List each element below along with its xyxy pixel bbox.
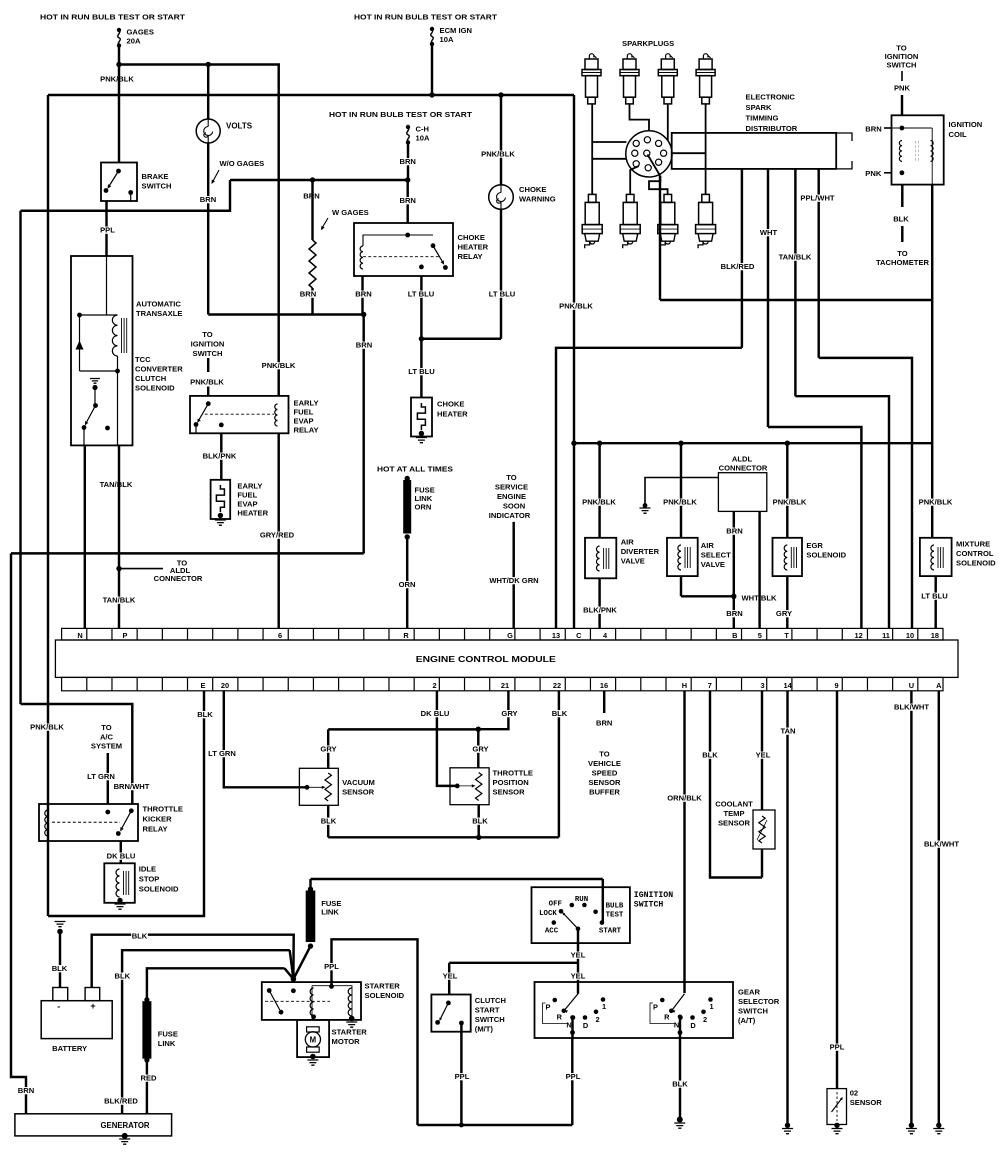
svg-text:2: 2 bbox=[433, 681, 437, 690]
svg-text:HEATER: HEATER bbox=[437, 410, 468, 419]
svg-text:10A: 10A bbox=[416, 134, 430, 143]
wire DK BLU from pin 2 bbox=[437, 691, 455, 786]
svg-text:BRN: BRN bbox=[399, 196, 415, 205]
svg-text:RUN: RUN bbox=[575, 896, 588, 904]
svg-text:RELAY: RELAY bbox=[143, 825, 168, 834]
wire fuse GAGES to bus bbox=[118, 46, 120, 65]
svg-text:PNK/BLK: PNK/BLK bbox=[919, 498, 953, 507]
svg-text:FUEL: FUEL bbox=[237, 491, 257, 500]
svg-text:W/O GAGES: W/O GAGES bbox=[220, 159, 265, 168]
node starter solenoid feed junction bbox=[291, 976, 297, 982]
svg-text:SOLENOID: SOLENOID bbox=[956, 559, 996, 568]
wire LT GRN from pin 20 bbox=[224, 691, 305, 788]
sensor THROTTLE POSITION SENSOR bbox=[450, 768, 489, 805]
svg-text:U: U bbox=[909, 681, 914, 690]
svg-text:2: 2 bbox=[703, 1015, 707, 1024]
svg-text:PPL: PPL bbox=[100, 226, 115, 235]
svg-text:BLK: BLK bbox=[52, 964, 68, 973]
solenoid AIR SELECT VALVE bbox=[680, 443, 682, 538]
svg-text:12: 12 bbox=[854, 631, 862, 640]
svg-text:BRAKE: BRAKE bbox=[142, 172, 169, 181]
wire YEL from pin 3 bbox=[761, 691, 763, 810]
svg-text:TO: TO bbox=[599, 750, 610, 759]
solenoid IDLE STOP SOLENOID bbox=[104, 863, 135, 903]
resistor W GAGES bbox=[303, 193, 320, 200]
wire BRN from relay bbox=[361, 276, 363, 315]
svg-text:1: 1 bbox=[709, 1002, 713, 1011]
wire PNK/BLK left rail x48 bbox=[47, 95, 49, 916]
sparkplug top 2 bbox=[620, 54, 639, 104]
svg-text:SWITCH: SWITCH bbox=[887, 61, 917, 70]
svg-text:BRN: BRN bbox=[300, 290, 316, 299]
svg-text:LT BLU: LT BLU bbox=[921, 592, 948, 601]
sparkplug top 3 bbox=[658, 54, 677, 104]
svg-text:BLK: BLK bbox=[197, 710, 213, 719]
sensor 02 SENSOR bbox=[827, 1089, 847, 1125]
fuse link RED generator bbox=[147, 968, 285, 998]
svg-text:SWITCH: SWITCH bbox=[475, 1015, 505, 1024]
sparkplug top 4 bbox=[696, 54, 715, 104]
wire BRN label generator bbox=[18, 1087, 35, 1094]
svg-text:GEAR: GEAR bbox=[738, 988, 760, 997]
wire BRN from ALDL to ECM pin B bbox=[733, 511, 735, 628]
distributor rotor wire to ignition coil bbox=[648, 155, 661, 176]
svg-text:MIXTURE: MIXTURE bbox=[956, 540, 990, 549]
sparkplug bottom 1 bbox=[582, 194, 602, 248]
svg-text:SOON: SOON bbox=[503, 502, 525, 511]
svg-text:N: N bbox=[77, 631, 82, 640]
wire LT GRN to throttle kicker relay bbox=[107, 753, 109, 804]
node junction BRN at y180 bbox=[405, 177, 410, 182]
wire BLK/RED from distributor bbox=[741, 169, 743, 348]
wire PPL starter solenoid loop bbox=[332, 939, 418, 1125]
svg-text:GENERATOR: GENERATOR bbox=[100, 1121, 149, 1130]
motor STARTER MOTOR bbox=[297, 1020, 329, 1057]
svg-text:P: P bbox=[546, 1003, 551, 1012]
svg-text:A: A bbox=[936, 681, 942, 690]
wire GRY net from pin 21 bbox=[478, 691, 508, 729]
svg-text:BULB: BULB bbox=[606, 903, 624, 911]
solenoid EGR SOLENOID bbox=[786, 443, 788, 538]
svg-text:TACHOMETER: TACHOMETER bbox=[876, 258, 930, 267]
svg-text:LINK: LINK bbox=[158, 1039, 176, 1048]
svg-text:BRN: BRN bbox=[18, 1086, 34, 1095]
wire bus y210 to left rail bbox=[21, 180, 231, 211]
wire LT BLU to ECM pin 18 bbox=[934, 576, 936, 628]
wire PNK/BLK bus y443 bbox=[574, 442, 932, 444]
distributor cap circle bbox=[626, 131, 672, 177]
wire main bus y95 bbox=[48, 94, 574, 96]
svg-text:PPL/WHT: PPL/WHT bbox=[800, 194, 835, 203]
fuse link (ignition feed) bbox=[311, 878, 603, 880]
svg-text:BLK: BLK bbox=[472, 817, 488, 826]
svg-text:WHT/DK GRN: WHT/DK GRN bbox=[489, 576, 538, 585]
wire BLK battery positive to starter bbox=[92, 935, 294, 988]
svg-text:HEATER: HEATER bbox=[237, 509, 268, 518]
generator GENERATOR bbox=[15, 1114, 172, 1136]
svg-text:N: N bbox=[674, 1020, 679, 1029]
wire drop to brake switch bbox=[118, 65, 120, 163]
relay CHOKE HEATER RELAY bbox=[354, 223, 453, 276]
svg-text:SWITCH: SWITCH bbox=[142, 182, 172, 191]
wire BLK from coil to tachometer bbox=[901, 185, 903, 207]
wire plug1 to distributor bbox=[591, 104, 593, 194]
svg-text:LT BLU: LT BLU bbox=[489, 290, 516, 299]
wire TAN from pin 14 to ground bbox=[786, 691, 788, 1124]
switch GEAR SELECTOR SWITCH (A/T) bbox=[535, 982, 734, 1038]
node junction LT BLU bbox=[419, 336, 424, 341]
sparkplug bottom 3 bbox=[658, 194, 678, 248]
svg-text:WHT: WHT bbox=[760, 228, 778, 237]
svg-text:SOLENOID: SOLENOID bbox=[139, 885, 179, 894]
solenoid STARTER SOLENOID bbox=[262, 982, 361, 1020]
svg-text:A/C: A/C bbox=[100, 732, 114, 741]
svg-text:HEATER: HEATER bbox=[458, 243, 489, 252]
svg-text:BLK: BLK bbox=[702, 751, 718, 760]
svg-text:RED: RED bbox=[140, 1074, 157, 1083]
svg-text:DIVERTER: DIVERTER bbox=[621, 547, 660, 556]
svg-text:AIR: AIR bbox=[621, 538, 635, 547]
svg-text:RELAY: RELAY bbox=[294, 426, 319, 435]
svg-text:SELECTOR: SELECTOR bbox=[738, 997, 780, 1006]
svg-text:14: 14 bbox=[783, 681, 792, 690]
wire PPL brake switch to transaxle bbox=[105, 201, 107, 256]
svg-text:SENSOR: SENSOR bbox=[588, 778, 621, 787]
svg-text:BLK: BLK bbox=[321, 817, 337, 826]
wire GRY to vacuum sensor bbox=[327, 729, 329, 768]
wire BRN to choke heater relay bbox=[406, 180, 408, 223]
svg-text:CLUTCH: CLUTCH bbox=[475, 996, 506, 1005]
wire plug2 bottom to distributor bbox=[630, 166, 639, 194]
svg-text:IGNITION: IGNITION bbox=[949, 120, 983, 129]
svg-text:HOT IN RUN BULB TEST OR START: HOT IN RUN BULB TEST OR START bbox=[329, 110, 472, 119]
svg-text:R: R bbox=[557, 1013, 563, 1022]
wire fuse link to starter solenoid junction bbox=[293, 946, 310, 979]
svg-text:GRY: GRY bbox=[776, 609, 792, 618]
wire ALDL ground bbox=[645, 478, 718, 505]
node junction EGR feed bbox=[785, 441, 790, 446]
wire TCC coil output down bbox=[117, 371, 119, 445]
wire WHT from distributor bbox=[767, 169, 769, 427]
svg-text:VALVE: VALVE bbox=[701, 560, 725, 569]
svg-text:22: 22 bbox=[553, 681, 561, 690]
wire PPL from clutch switch bbox=[460, 1023, 462, 1125]
svg-text:GRY: GRY bbox=[501, 709, 517, 718]
svg-text:TO: TO bbox=[506, 473, 517, 482]
svg-text:SPEED: SPEED bbox=[592, 769, 618, 778]
wire PPL from gear selector left bank bbox=[570, 1015, 575, 1020]
svg-text:TAN/BLK: TAN/BLK bbox=[779, 253, 812, 262]
svg-text:TO: TO bbox=[101, 723, 112, 732]
sparkplug bottom 2 bbox=[620, 194, 640, 248]
svg-text:C-H: C-H bbox=[416, 125, 430, 134]
solenoid MIXTURE CONTROL SOLENOID bbox=[918, 499, 953, 506]
svg-text:PNK/BLK: PNK/BLK bbox=[190, 378, 224, 387]
svg-text:SWITCH: SWITCH bbox=[193, 349, 223, 358]
svg-text:TIMMING: TIMMING bbox=[746, 114, 779, 123]
svg-text:D: D bbox=[583, 1021, 589, 1030]
svg-text:02: 02 bbox=[850, 1089, 858, 1098]
wire LT BLU from choke warning bbox=[500, 210, 502, 339]
distributor body bbox=[672, 133, 837, 169]
svg-text:R: R bbox=[403, 631, 409, 640]
svg-text:PNK: PNK bbox=[865, 169, 882, 178]
svg-text:DK BLU: DK BLU bbox=[107, 852, 136, 861]
svg-text:6: 6 bbox=[278, 631, 282, 640]
node junction x574 bbox=[571, 441, 576, 446]
node junction air select feed bbox=[678, 441, 683, 446]
svg-text:PNK/BLK: PNK/BLK bbox=[100, 75, 134, 84]
wire ALDL to ECM pin 5 bbox=[758, 511, 760, 628]
svg-text:LINK: LINK bbox=[321, 908, 339, 917]
svg-text:THROTTLE: THROTTLE bbox=[493, 769, 534, 778]
svg-text:IGNITION: IGNITION bbox=[191, 340, 225, 349]
svg-text:BRN: BRN bbox=[399, 157, 415, 166]
svg-text:CLUTCH: CLUTCH bbox=[135, 374, 166, 383]
svg-text:C: C bbox=[576, 631, 582, 640]
wire PNK/BLK main right rail bbox=[573, 95, 575, 628]
svg-text:BLK/PNK: BLK/PNK bbox=[203, 452, 237, 461]
module ENGINE CONTROL MODULE bbox=[55, 640, 958, 677]
svg-text:5: 5 bbox=[758, 631, 762, 640]
svg-text:LOCK: LOCK bbox=[539, 910, 557, 918]
svg-text:CONVERTER: CONVERTER bbox=[135, 365, 183, 374]
svg-text:BRN: BRN bbox=[355, 290, 371, 299]
svg-text:PNK/BLK: PNK/BLK bbox=[559, 302, 593, 311]
svg-text:ENGINE CONTROL MODULE: ENGINE CONTROL MODULE bbox=[416, 655, 556, 664]
wire BRN bus y553 bbox=[362, 551, 364, 554]
ignition coil U1 bbox=[892, 115, 944, 184]
svg-text:BLK: BLK bbox=[132, 932, 148, 941]
svg-text:BRN/WHT: BRN/WHT bbox=[114, 782, 150, 791]
wire plug3 bottom to distributor bbox=[649, 176, 668, 194]
svg-text:ACC: ACC bbox=[545, 928, 559, 936]
svg-text:10: 10 bbox=[906, 631, 914, 640]
wire BLK generator to starter bbox=[122, 950, 290, 1114]
svg-text:SENSOR: SENSOR bbox=[493, 788, 526, 797]
svg-text:EGR: EGR bbox=[806, 541, 823, 550]
svg-text:PNK/BLK: PNK/BLK bbox=[773, 498, 807, 507]
svg-text:COIL: COIL bbox=[949, 130, 968, 139]
svg-text:VOLTS: VOLTS bbox=[226, 122, 253, 131]
svg-text:TRANSAXLE: TRANSAXLE bbox=[136, 309, 182, 318]
wire PPL bottom run bbox=[418, 1124, 573, 1126]
svg-text:11: 11 bbox=[882, 631, 890, 640]
svg-text:VACUUM: VACUUM bbox=[342, 778, 375, 787]
svg-text:CONNECTOR: CONNECTOR bbox=[719, 464, 768, 473]
wire corner x279 top bbox=[277, 63, 279, 95]
svg-text:BLK/RED: BLK/RED bbox=[104, 1097, 138, 1106]
svg-text:COOLANT: COOLANT bbox=[715, 800, 753, 809]
svg-text:BRN: BRN bbox=[356, 341, 372, 350]
svg-text:YEL: YEL bbox=[571, 972, 586, 981]
svg-text:BLK: BLK bbox=[893, 215, 909, 224]
svg-text:BLK/WHT: BLK/WHT bbox=[894, 703, 929, 712]
svg-text:YEL: YEL bbox=[756, 751, 771, 760]
svg-text:BLK: BLK bbox=[552, 709, 568, 718]
svg-text:TAN: TAN bbox=[780, 727, 795, 736]
svg-text:+: + bbox=[90, 1001, 95, 1011]
wire plug4 vertical bbox=[705, 104, 707, 194]
switch CLUTCH START SWITCH (M/T) bbox=[431, 995, 470, 1032]
svg-text:G: G bbox=[507, 631, 513, 640]
svg-text:IGNITION: IGNITION bbox=[634, 891, 673, 900]
distributor to coil connector top bbox=[836, 133, 852, 141]
svg-text:RELAY: RELAY bbox=[458, 252, 483, 261]
svg-text:ORN: ORN bbox=[399, 580, 416, 589]
svg-text:SENSOR: SENSOR bbox=[342, 788, 375, 797]
svg-text:FUEL: FUEL bbox=[294, 408, 314, 417]
svg-text:HOT IN RUN BULB TEST OR START: HOT IN RUN BULB TEST OR START bbox=[354, 13, 497, 22]
svg-text:BRN: BRN bbox=[596, 719, 612, 728]
fuse GAGES 20A bbox=[117, 28, 121, 32]
svg-text:START: START bbox=[599, 928, 622, 936]
node junction air diverter feed bbox=[597, 441, 602, 446]
svg-text:ECM IGN: ECM IGN bbox=[440, 26, 473, 35]
svg-text:DISTRIBUTOR: DISTRIBUTOR bbox=[746, 124, 798, 133]
TCC converter clutch solenoid internals bbox=[106, 256, 108, 315]
svg-text:STARTER: STARTER bbox=[365, 982, 401, 991]
svg-text:PNK/BLK: PNK/BLK bbox=[262, 361, 296, 370]
svg-text:TO: TO bbox=[202, 330, 213, 339]
wire YEL into gear selector bbox=[577, 963, 579, 994]
svg-text:M: M bbox=[310, 1035, 317, 1044]
wire PPL from pin 9 bbox=[836, 691, 838, 1089]
wire distributor coil HT bus y300 bbox=[660, 299, 932, 301]
svg-text:YEL: YEL bbox=[443, 972, 458, 981]
svg-text:TCC: TCC bbox=[135, 355, 151, 364]
connector ECM top pin row bbox=[62, 628, 943, 640]
wire coil secondary down right rail bbox=[931, 185, 933, 538]
wire BLK to ECM pin 22 bbox=[558, 691, 560, 838]
wire TAN/BLK from distributor bbox=[794, 169, 796, 396]
svg-text:W GAGES: W GAGES bbox=[332, 208, 369, 217]
svg-text:CONNECTOR: CONNECTOR bbox=[154, 574, 203, 583]
svg-text:TAN/BLK: TAN/BLK bbox=[100, 480, 133, 489]
svg-text:STARTER: STARTER bbox=[332, 1028, 368, 1037]
relay THROTTLE KICKER RELAY bbox=[39, 804, 138, 841]
switch IGNITION SWITCH bbox=[602, 879, 604, 923]
svg-text:LT BLU: LT BLU bbox=[408, 367, 435, 376]
svg-text:2: 2 bbox=[595, 1015, 599, 1024]
svg-text:YEL: YEL bbox=[571, 951, 586, 960]
node junction PNK/BLK bus bbox=[116, 62, 121, 67]
svg-text:16: 16 bbox=[600, 681, 608, 690]
svg-text:CHOKE: CHOKE bbox=[519, 185, 546, 194]
svg-text:SYSTEM: SYSTEM bbox=[91, 742, 122, 751]
wire plug2 top to distributor bbox=[630, 104, 650, 131]
svg-text:VEHICLE: VEHICLE bbox=[588, 759, 621, 768]
wire BRN from pin 16 bbox=[603, 691, 605, 713]
svg-text:CONTROL: CONTROL bbox=[956, 549, 994, 558]
svg-text:D: D bbox=[690, 1021, 696, 1030]
connector ECM bottom pin row bbox=[62, 677, 943, 690]
wire PNK/BLK through EFE relay bbox=[277, 95, 279, 396]
wire ORN to ECM pin R bbox=[406, 537, 408, 629]
svg-text:21: 21 bbox=[501, 681, 509, 690]
wire label PNK/BLK bbox=[100, 76, 135, 83]
fuse C-H 10A bbox=[406, 125, 410, 129]
svg-text:AUTOMATIC: AUTOMATIC bbox=[136, 300, 181, 309]
svg-text:GRY/RED: GRY/RED bbox=[260, 531, 295, 540]
svg-text:B: B bbox=[732, 631, 737, 640]
svg-text:WARNING: WARNING bbox=[519, 195, 556, 204]
wire left rail x20 bbox=[19, 211, 21, 704]
svg-text:SELECT: SELECT bbox=[701, 551, 731, 560]
solenoid AIR DIVERTER VALVE bbox=[598, 443, 600, 538]
svg-text:EVAP: EVAP bbox=[237, 500, 257, 509]
svg-text:13: 13 bbox=[552, 631, 560, 640]
svg-text:HOT AT ALL TIMES: HOT AT ALL TIMES bbox=[377, 465, 453, 474]
svg-text:PNK/BLK: PNK/BLK bbox=[30, 723, 64, 732]
svg-text:(A/T): (A/T) bbox=[738, 1016, 756, 1025]
wire BLK battery negative bbox=[59, 932, 61, 988]
svg-text:TEST: TEST bbox=[606, 912, 624, 920]
heater CHOKE HEATER bbox=[420, 339, 422, 398]
svg-text:7: 7 bbox=[708, 681, 712, 690]
wire BLK net below sensors bbox=[327, 805, 329, 837]
wire BRN/WHT to throttle kicker relay bbox=[21, 704, 133, 804]
svg-text:10A: 10A bbox=[440, 35, 454, 44]
svg-text:(M/T): (M/T) bbox=[475, 1025, 494, 1034]
svg-text:BLK/RED: BLK/RED bbox=[721, 262, 755, 271]
wire plug3 top to distributor bbox=[667, 104, 669, 140]
svg-text:BLK/WHT: BLK/WHT bbox=[924, 840, 959, 849]
svg-text:LT GRN: LT GRN bbox=[87, 772, 115, 781]
svg-text:T: T bbox=[784, 631, 789, 640]
svg-text:20: 20 bbox=[221, 681, 229, 690]
svg-text:N: N bbox=[566, 1020, 571, 1029]
svg-text:IDLE: IDLE bbox=[139, 865, 156, 874]
svg-text:PNK: PNK bbox=[894, 84, 911, 93]
svg-text:R: R bbox=[664, 1013, 670, 1022]
sensor COOLANT TEMP SENSOR bbox=[753, 810, 775, 849]
svg-text:HOT IN RUN BULB TEST OR START: HOT IN RUN BULB TEST OR START bbox=[40, 13, 185, 22]
svg-text:CHOKE: CHOKE bbox=[437, 400, 464, 409]
svg-text:18: 18 bbox=[931, 631, 939, 640]
svg-text:LT GRN: LT GRN bbox=[208, 749, 236, 758]
svg-text:TO: TO bbox=[897, 249, 908, 258]
svg-text:GAGES: GAGES bbox=[127, 28, 154, 37]
ignition switch arm bbox=[563, 913, 578, 929]
relay EARLY FUEL EVAP RELAY bbox=[190, 396, 289, 433]
svg-text:KICKER: KICKER bbox=[143, 815, 173, 824]
svg-text:BRN: BRN bbox=[726, 527, 742, 536]
wire C-H fuse down BRN bbox=[407, 143, 409, 181]
svg-text:SPARKPLUGS: SPARKPLUGS bbox=[622, 39, 674, 48]
wire top bus y64 bbox=[119, 63, 280, 65]
svg-text:SPARK: SPARK bbox=[746, 103, 773, 112]
wire TAN/BLK right to ECM pin P bbox=[118, 445, 120, 628]
lamp CHOKE WARNING bbox=[500, 95, 502, 185]
svg-text:PPL: PPL bbox=[830, 1043, 845, 1052]
wire y180 bus to BRN node bbox=[230, 179, 408, 181]
wire PNK to ignition coil bbox=[901, 95, 903, 115]
wire TAN/BLK left to ECM pin N bbox=[84, 445, 86, 628]
svg-text:BRN: BRN bbox=[865, 125, 881, 134]
distributor to coil connector bottom bbox=[836, 161, 852, 169]
svg-text:BRN: BRN bbox=[726, 609, 742, 618]
svg-text:SWITCH: SWITCH bbox=[634, 901, 664, 910]
svg-text:TEMP: TEMP bbox=[723, 809, 744, 818]
svg-text:H: H bbox=[682, 681, 687, 690]
wire WHT/DK GRN to ECM pin G bbox=[512, 522, 514, 629]
wire LT BLU from relay bbox=[420, 276, 422, 339]
battery BATTERY bbox=[53, 988, 68, 1001]
wire BRN far-left rail to generator bbox=[11, 553, 26, 1113]
svg-text:ELECTRONIC: ELECTRONIC bbox=[746, 93, 796, 102]
lamp VOLTS bbox=[207, 65, 209, 120]
